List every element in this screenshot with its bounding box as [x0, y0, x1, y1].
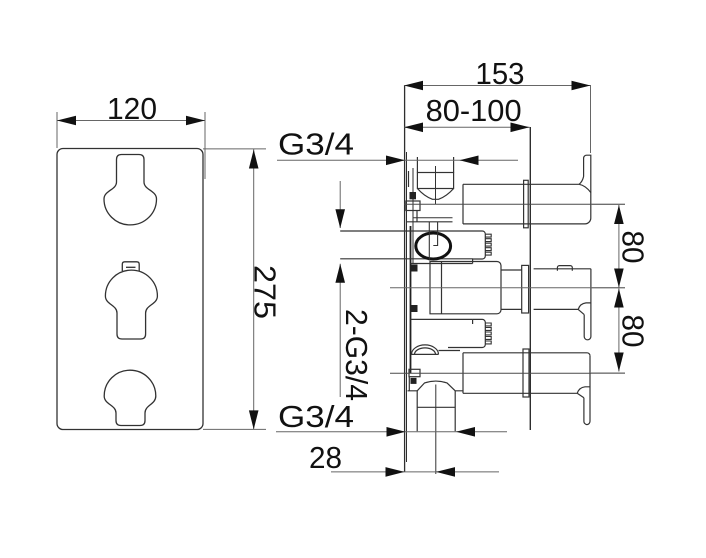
counter arrow G3/4 bottom: [456, 427, 475, 437]
pipe top edge bottom: [463, 353, 590, 356]
arrow right 153: [572, 81, 591, 91]
neck bottom: [501, 308, 522, 310]
pipe centerline bottom: [390, 372, 625, 374]
boss stem: [416, 211, 418, 223]
arrow right-pointing 28: [386, 467, 405, 477]
finger cap bottom: [577, 387, 590, 394]
arrow down 80 upper: [614, 269, 624, 288]
dim line left 28: [331, 471, 499, 473]
right edge and finger mid: [584, 269, 591, 340]
funnel chamfer: [417, 189, 453, 200]
screw mid-upper: [411, 265, 418, 272]
port tube: [417, 391, 455, 432]
pipe flange left: [462, 184, 464, 224]
bottom knob keyhole: [104, 370, 156, 425]
wall back line: [406, 152, 408, 462]
dome link line: [439, 350, 461, 352]
svg-text:80-100: 80-100: [426, 93, 522, 128]
leader line G3/4 bottom: [276, 431, 507, 433]
cartridge bottom edge upper: [340, 258, 472, 260]
funnel centerline: [435, 166, 437, 204]
sleeve top pipe: [524, 180, 529, 228]
dimension line 275: [253, 149, 255, 429]
dome cap: [411, 345, 439, 355]
top knob keyhole: [104, 155, 157, 225]
svg-text:28: 28: [309, 440, 342, 475]
ellipse inner vertical line: [428, 222, 430, 261]
thread tick right: [453, 157, 455, 173]
svg-text:80: 80: [616, 315, 651, 348]
pipe flange left bottom: [462, 353, 464, 394]
wall face line: [404, 85, 406, 472]
dimension line 80-100: [404, 126, 530, 128]
arrow left-pointing 28: [436, 467, 455, 477]
arrow left 80-100: [404, 123, 423, 133]
arrow G3/4 top: [386, 156, 405, 166]
finger fold mid: [578, 309, 584, 314]
arrow right 120: [186, 116, 205, 126]
pipe centerline top: [404, 203, 625, 205]
pipe top edge mid: [534, 268, 591, 270]
thread teeth lower: [485, 323, 491, 344]
port joint line: [417, 406, 455, 408]
pipe bottom edge: [463, 223, 585, 225]
shelf under cartridge: [411, 263, 473, 265]
screw mid-lower: [411, 305, 418, 312]
wall ledge top: [408, 171, 410, 187]
arrow top 275: [249, 150, 259, 169]
extension line right of 120: [204, 112, 206, 179]
extension mid 80: [591, 287, 625, 289]
finished wall line: [529, 127, 531, 430]
arrow bottom 275: [249, 410, 259, 429]
step at lower shelf: [472, 319, 474, 324]
middle knob keyhole: [105, 270, 157, 339]
sleeve bottom pipe: [523, 349, 529, 397]
cartridge body upper: [340, 231, 485, 264]
svg-text:2-G3/4: 2-G3/4: [339, 309, 374, 401]
boss: [406, 201, 420, 211]
ledge bottom: [408, 377, 410, 391]
extension line bottom of 275: [203, 428, 266, 430]
arrow up 80 lower: [614, 289, 624, 308]
leader lower segment: [339, 264, 341, 397]
pipe bottom edge mid: [534, 308, 579, 310]
arrow down 2-G3/4: [335, 209, 345, 228]
arrow up 2-G3/4: [335, 264, 345, 283]
neck top: [501, 269, 522, 271]
dimension line 120: [57, 120, 205, 122]
front plate outline: [57, 149, 203, 430]
screw bottom: [411, 378, 417, 384]
finger fold bottom: [577, 393, 584, 398]
arrow right 80-100: [511, 123, 530, 133]
bracket plate line: [410, 226, 412, 373]
arrow left 153: [404, 81, 423, 91]
svg-text:80: 80: [616, 231, 651, 264]
finger cap mid: [578, 303, 591, 310]
pipe top edge: [463, 183, 579, 185]
arrow G3/4 bottom: [387, 427, 406, 437]
arrow left 120: [57, 116, 76, 126]
extension right of 153: [590, 85, 592, 153]
dim line upper 80: [618, 205, 620, 288]
cartridge body lower: [448, 319, 485, 347]
clip tab mid: [557, 266, 572, 271]
svg-text:G3/4: G3/4: [278, 127, 354, 162]
shelf under top pipe: [407, 221, 453, 223]
finger fillet top: [579, 177, 584, 185]
pipe right edge with corner: [584, 155, 591, 224]
sleeve middle: [522, 265, 529, 313]
svg-text:120: 120: [107, 91, 157, 126]
leader line G3/4 top: [277, 159, 518, 161]
extension line top of 275: [203, 148, 266, 150]
counter arrow G3/4 top: [460, 156, 479, 166]
pipe bottom edge bottom: [463, 392, 577, 394]
funnel roof: [417, 381, 455, 391]
extension bottom 80: [591, 372, 625, 374]
right edge and finger bottom: [584, 356, 590, 425]
leader upper segment: [339, 181, 341, 228]
finger cap arc top: [579, 184, 591, 192]
funnel roof base segments: [408, 390, 464, 392]
block inner line: [441, 262, 443, 314]
dim line lower 80: [618, 289, 620, 372]
funnel body: [417, 173, 453, 189]
ellipse inner stub: [433, 222, 437, 246]
boss bottom: [409, 369, 420, 376]
thread tick left: [416, 157, 418, 173]
arrow up 80 upper: [614, 205, 624, 224]
screw top: [410, 192, 417, 199]
port centerline: [435, 385, 437, 475]
svg-text:275: 275: [248, 265, 283, 319]
middle knob tab: [122, 262, 139, 271]
svg-text:153: 153: [476, 56, 525, 91]
block outline: [430, 262, 501, 314]
dimension line 153: [404, 85, 591, 87]
extension top 80: [591, 203, 625, 205]
thread teeth upper: [485, 234, 491, 255]
extension line left of 120: [56, 112, 58, 148]
main horizontal centerline: [390, 287, 625, 289]
arrow down 80 lower: [614, 353, 624, 372]
svg-text:G3/4: G3/4: [278, 399, 354, 434]
side port ellipse (bold): [416, 233, 451, 259]
shelf above lower cartridge: [411, 318, 473, 320]
